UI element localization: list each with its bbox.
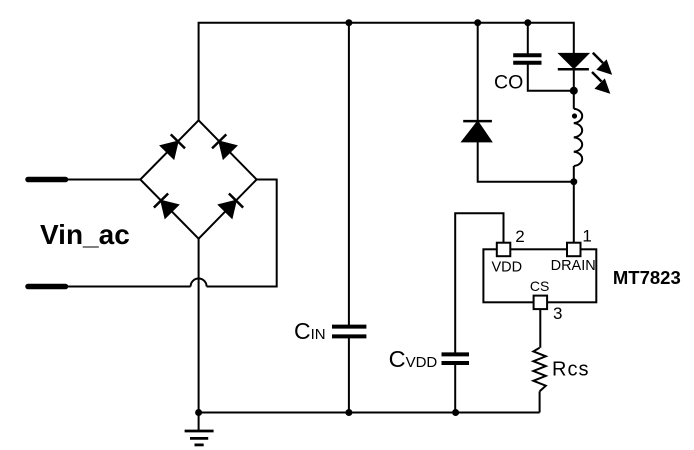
svg-text:CO: CO xyxy=(494,72,523,94)
svg-text:3: 3 xyxy=(553,304,562,323)
svg-text:Rcs: Rcs xyxy=(552,358,589,380)
svg-text:VDD: VDD xyxy=(492,259,523,275)
svg-text:CS: CS xyxy=(530,278,549,294)
svg-text:1: 1 xyxy=(582,227,591,246)
svg-text:Vin_ac: Vin_ac xyxy=(40,219,130,250)
svg-text:DRAIN: DRAIN xyxy=(551,258,596,274)
svg-text:2: 2 xyxy=(515,227,524,246)
svg-text:MT7823: MT7823 xyxy=(613,267,681,288)
